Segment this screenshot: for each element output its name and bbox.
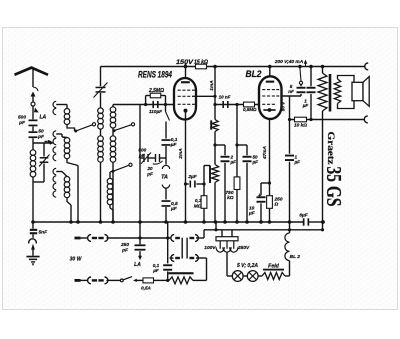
- svg-text:0,5MΩ: 0,5MΩ: [243, 107, 257, 112]
- svg-text:750: 750: [225, 190, 233, 196]
- svg-text:20: 20: [146, 166, 153, 171]
- svg-text:5 V; 0,2A: 5 V; 0,2A: [237, 263, 258, 269]
- svg-text:0,1: 0,1: [171, 137, 178, 143]
- svg-text:100V: 100V: [204, 245, 216, 251]
- svg-text:µF: µF: [230, 159, 237, 164]
- svg-text:10 nF: 10 nF: [219, 95, 231, 100]
- svg-text:Graetz: Graetz: [326, 132, 336, 165]
- svg-text:MΩ: MΩ: [194, 204, 202, 210]
- svg-text:µF: µF: [248, 211, 256, 217]
- svg-text:50 V: 50 V: [281, 101, 286, 111]
- svg-text:10: 10: [249, 205, 255, 211]
- svg-text:pF: pF: [121, 248, 129, 254]
- svg-text:200 V;40 mA: 200 V;40 mA: [274, 59, 304, 65]
- svg-text:6µF: 6µF: [299, 213, 308, 219]
- svg-text:2µF: 2µF: [187, 174, 197, 180]
- svg-text:Feld: Feld: [268, 263, 279, 269]
- svg-text:10 kΩ: 10 kΩ: [294, 123, 307, 129]
- svg-text:µF: µF: [170, 206, 178, 212]
- svg-text:15 kΩ: 15 kΩ: [194, 60, 208, 66]
- svg-text:Ω: Ω: [274, 202, 279, 208]
- svg-text:5nF: 5nF: [39, 229, 49, 235]
- svg-text:0,3: 0,3: [195, 198, 202, 204]
- svg-text:0,5: 0,5: [171, 201, 178, 207]
- svg-text:250: 250: [120, 242, 129, 248]
- svg-text:35 GS: 35 GS: [322, 167, 346, 207]
- svg-text:kΩ: kΩ: [227, 195, 234, 201]
- svg-text:2mA: 2mA: [178, 148, 184, 160]
- svg-text:30 W: 30 W: [70, 256, 83, 262]
- svg-text:µF: µF: [252, 159, 259, 164]
- svg-text:500: 500: [18, 115, 26, 121]
- svg-text:110µF: 110µF: [149, 109, 163, 115]
- svg-text:250: 250: [274, 196, 283, 202]
- svg-text:µF: µF: [302, 103, 309, 108]
- svg-text:1mA: 1mA: [209, 80, 215, 91]
- svg-text:500: 500: [138, 147, 146, 152]
- svg-text:0,1: 0,1: [153, 263, 160, 268]
- svg-text:pF: pF: [138, 153, 145, 158]
- svg-text:250V: 250V: [237, 245, 250, 251]
- svg-text:LA: LA: [134, 262, 141, 268]
- svg-text:µF: µF: [170, 142, 178, 148]
- svg-text:nF: nF: [288, 89, 294, 94]
- svg-text:µF: µF: [294, 159, 301, 164]
- svg-text:TA: TA: [161, 175, 168, 181]
- svg-text:pF: pF: [37, 134, 45, 140]
- svg-text:BL 2: BL 2: [290, 254, 301, 260]
- svg-text:0,5A: 0,5A: [141, 286, 151, 291]
- svg-text:2,5MΩ: 2,5MΩ: [148, 88, 164, 94]
- svg-text:pF: pF: [146, 171, 153, 176]
- svg-text:150V: 150V: [176, 59, 195, 66]
- svg-text:+: +: [258, 193, 261, 199]
- svg-text:47mA: 47mA: [262, 145, 268, 160]
- svg-text:LA: LA: [40, 115, 47, 121]
- svg-text:50: 50: [38, 129, 44, 135]
- svg-text:µF: µF: [152, 268, 159, 273]
- svg-text:pF: pF: [18, 120, 26, 126]
- svg-text:RENS 1894: RENS 1894: [138, 69, 172, 79]
- svg-text:BL2: BL2: [246, 69, 263, 79]
